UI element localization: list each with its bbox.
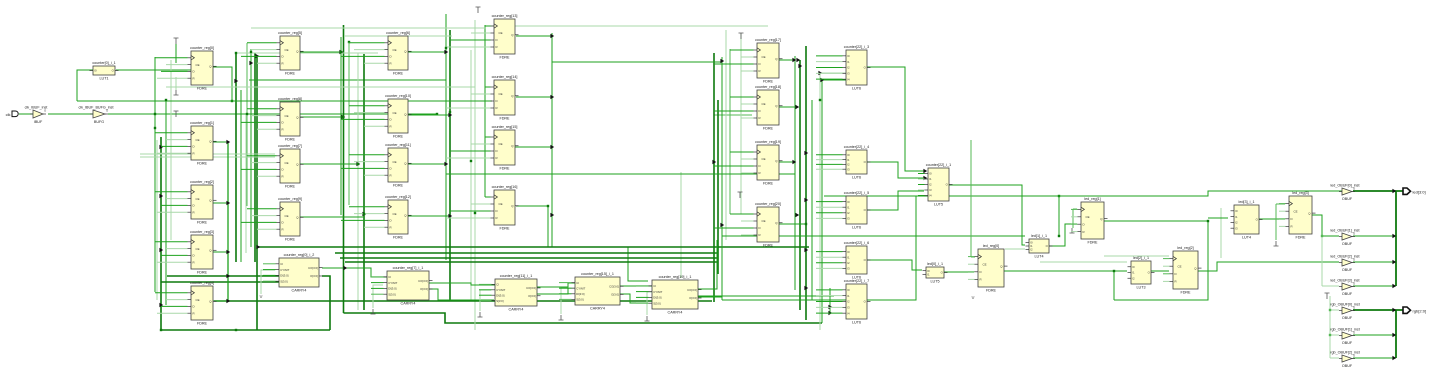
wire xyxy=(816,295,843,297)
wire xyxy=(256,56,258,330)
svg-text:D: D xyxy=(282,221,284,225)
LUT counter[22]_i_6 (LUT6) xyxy=(843,241,871,279)
svg-text:R: R xyxy=(193,311,195,315)
wire xyxy=(970,140,972,257)
junction arrow xyxy=(448,214,452,218)
wire xyxy=(357,53,359,310)
svg-text:led_OBUF[2]_inst: led_OBUF[2]_inst xyxy=(1330,255,1359,259)
wire xyxy=(213,251,228,253)
junction arrow xyxy=(804,198,808,202)
junction xyxy=(165,99,167,101)
wire xyxy=(559,287,572,289)
flip-flop counter_reg[12] (FDRE) xyxy=(385,195,412,239)
svg-text:LUT4: LUT4 xyxy=(1034,254,1043,258)
wire xyxy=(246,43,248,206)
svg-text:CE: CE xyxy=(196,247,200,251)
svg-text:FDRE: FDRE xyxy=(763,243,774,247)
wire xyxy=(155,57,188,59)
svg-text:R: R xyxy=(193,151,195,155)
wire xyxy=(348,42,350,205)
wire xyxy=(354,112,385,114)
wire xyxy=(485,136,491,138)
wire xyxy=(322,276,330,330)
wire xyxy=(816,301,843,303)
wire xyxy=(1208,217,1228,219)
wire xyxy=(779,223,806,225)
svg-text:D: D xyxy=(390,219,392,223)
junction arrow xyxy=(550,95,554,99)
wire xyxy=(968,263,975,265)
wire xyxy=(1395,191,1397,286)
junction xyxy=(348,41,350,43)
flip-flop counter_reg[16] (FDRE) xyxy=(491,185,519,230)
wire xyxy=(446,157,491,159)
junction xyxy=(1058,235,1060,237)
wire xyxy=(349,206,385,208)
svg-text:CYINIT: CYINIT xyxy=(388,281,397,285)
wire xyxy=(816,212,843,214)
wire xyxy=(341,219,385,221)
svg-text:led_reg[0]: led_reg[0] xyxy=(983,244,999,248)
wire xyxy=(349,105,385,107)
svg-text:DI[3:0]: DI[3:0] xyxy=(388,287,396,291)
svg-text:'0': '0' xyxy=(971,296,975,300)
junction xyxy=(363,213,365,215)
svg-text:R: R xyxy=(496,216,498,220)
wire xyxy=(249,79,446,81)
svg-text:CI: CI xyxy=(496,283,499,287)
flip-flop led_reg[2] (FDRE) xyxy=(1170,246,1202,294)
svg-text:CARRY4: CARRY4 xyxy=(292,288,307,292)
flip-flop counter_reg[6] (FDRE) xyxy=(385,31,412,75)
wire xyxy=(485,25,491,27)
wire xyxy=(247,208,277,210)
svg-text:CE: CE xyxy=(285,48,289,52)
LUT led[3]_i_1 (LUT4) xyxy=(1231,200,1263,239)
junction xyxy=(357,163,359,165)
wire xyxy=(354,213,385,215)
wire xyxy=(263,269,276,271)
svg-text:R: R xyxy=(1083,230,1085,234)
flip-flop counter_reg[5] (FDRE) xyxy=(277,31,304,75)
svg-text:R: R xyxy=(759,116,761,120)
junction arrow xyxy=(159,194,163,198)
wire xyxy=(371,287,384,289)
junction arrow xyxy=(828,311,832,315)
svg-text:FDRE: FDRE xyxy=(197,86,208,90)
svg-text:counter_reg[10]: counter_reg[10] xyxy=(385,94,411,98)
svg-text:counter_reg[0]_i_2: counter_reg[0]_i_2 xyxy=(284,253,315,257)
wire xyxy=(816,55,843,57)
svg-text:FDRE: FDRE xyxy=(763,126,774,130)
buffer rgb_OBUF[1]_inst (OBUF) xyxy=(1330,328,1360,346)
wire xyxy=(816,78,843,80)
wire xyxy=(161,329,330,331)
wire xyxy=(1276,203,1285,205)
svg-text:D: D xyxy=(282,168,284,172)
svg-text:CE: CE xyxy=(1178,264,1182,268)
wire xyxy=(729,49,731,214)
wire xyxy=(373,285,383,308)
wire xyxy=(1330,309,1339,311)
wire xyxy=(371,293,384,295)
svg-text:FDRE: FDRE xyxy=(499,166,510,170)
wire xyxy=(1071,208,1078,210)
wire xyxy=(636,285,649,287)
wire xyxy=(247,155,277,157)
wire xyxy=(213,67,232,101)
svg-text:counter_reg[14]: counter_reg[14] xyxy=(492,75,518,79)
wire xyxy=(816,306,843,308)
junction arrow xyxy=(1392,356,1396,360)
wire xyxy=(166,139,188,141)
wire xyxy=(1163,265,1170,267)
wire xyxy=(77,100,492,102)
wire xyxy=(816,289,843,291)
wire xyxy=(479,300,492,302)
wire xyxy=(154,57,156,292)
junction arrow xyxy=(1392,260,1396,264)
svg-text:counter_reg[15]: counter_reg[15] xyxy=(492,125,518,129)
wire xyxy=(779,59,794,61)
svg-text:D: D xyxy=(759,109,761,113)
flip-flop counter_reg[11] (FDRE) xyxy=(385,143,412,187)
wire xyxy=(214,300,712,302)
wire xyxy=(445,14,447,260)
wire xyxy=(345,261,717,263)
wire xyxy=(335,252,717,254)
svg-text:DI[3:0]: DI[3:0] xyxy=(576,292,584,296)
input port clk xyxy=(6,111,19,117)
wire xyxy=(559,282,572,284)
wire xyxy=(1395,310,1397,358)
output port led[3:0] xyxy=(1403,188,1426,194)
junction xyxy=(1207,220,1209,222)
junction xyxy=(342,116,344,118)
wire xyxy=(816,267,843,269)
flip-flop counter_reg[20] (FDRE) xyxy=(754,202,783,247)
svg-text:counter_reg[8]: counter_reg[8] xyxy=(278,97,302,101)
svg-text:R: R xyxy=(759,69,761,73)
wire xyxy=(300,163,358,165)
wire xyxy=(1329,296,1331,358)
wire xyxy=(816,217,843,219)
svg-text:R: R xyxy=(282,227,284,231)
flip-flop counter_reg[8] (FDRE) xyxy=(277,97,304,141)
junction arrow xyxy=(339,50,343,54)
wire xyxy=(559,298,572,300)
svg-text:led_reg[2]: led_reg[2] xyxy=(1177,246,1193,250)
junction arrow xyxy=(1392,308,1396,312)
wire xyxy=(547,206,549,247)
wire xyxy=(717,100,719,274)
wire xyxy=(471,143,491,145)
junction xyxy=(470,160,472,162)
junction xyxy=(547,205,549,207)
wire xyxy=(341,55,385,57)
junction arrow xyxy=(255,54,259,58)
svg-text:rgb[2:0]: rgb[2:0] xyxy=(1413,308,1427,313)
junction arrow xyxy=(804,286,808,290)
svg-text:CI: CI xyxy=(388,275,391,279)
svg-text:R: R xyxy=(496,156,498,160)
svg-text:FDRE: FDRE xyxy=(197,270,208,274)
svg-text:CYINIT: CYINIT xyxy=(653,290,662,294)
flip-flop counter_reg[9] (FDRE) xyxy=(277,197,304,241)
wire xyxy=(1353,190,1403,192)
wire xyxy=(175,77,177,90)
wire xyxy=(816,206,843,208)
wire xyxy=(741,234,754,236)
buffer rgb_OBUF[0]_inst (OBUF) xyxy=(1330,303,1360,321)
wire xyxy=(166,299,188,301)
svg-text:counter_reg[7]_i_1: counter_reg[7]_i_1 xyxy=(393,266,424,270)
wire xyxy=(918,184,925,186)
wire xyxy=(537,288,571,294)
svg-text:CE: CE xyxy=(393,111,397,115)
svg-text:counter[22]_i_7: counter[22]_i_7 xyxy=(844,279,869,283)
svg-text:counter_reg[5]: counter_reg[5] xyxy=(278,31,302,35)
wire xyxy=(1353,357,1396,359)
wire xyxy=(816,168,843,170)
wire xyxy=(227,142,229,301)
wire xyxy=(254,53,256,262)
wire xyxy=(1072,209,1074,228)
svg-text:counter_reg[0]: counter_reg[0] xyxy=(190,46,214,50)
constant marker xyxy=(174,111,179,117)
svg-text:FDRE: FDRE xyxy=(1295,235,1306,239)
svg-text:LUT6: LUT6 xyxy=(852,320,861,324)
junction xyxy=(1329,334,1331,336)
svg-text:D: D xyxy=(193,70,195,74)
wire xyxy=(250,49,252,247)
svg-text:D: D xyxy=(193,305,195,309)
wire xyxy=(349,154,385,156)
wire xyxy=(160,137,162,330)
svg-text:S[3:0]: S[3:0] xyxy=(576,298,584,302)
junction arrow xyxy=(159,303,163,307)
wire xyxy=(322,268,387,277)
wire xyxy=(450,100,491,102)
wire xyxy=(552,61,721,63)
ground xyxy=(1274,241,1279,246)
svg-text:clk_IBUF_BUFG_inst: clk_IBUF_BUFG_inst xyxy=(78,106,113,110)
wire xyxy=(241,121,277,123)
constant marker xyxy=(476,7,481,13)
wire xyxy=(1279,203,1286,205)
svg-text:R: R xyxy=(193,260,195,264)
wire xyxy=(371,282,384,284)
svg-text:FDRE: FDRE xyxy=(393,183,404,187)
svg-text:CE: CE xyxy=(393,160,397,164)
svg-text:S[3:0]: S[3:0] xyxy=(496,299,504,303)
svg-text:counter_reg[13]: counter_reg[13] xyxy=(492,14,518,18)
svg-text:counter_reg[15]_i_1: counter_reg[15]_i_1 xyxy=(581,272,614,276)
svg-text:counter_reg[7]: counter_reg[7] xyxy=(278,144,302,148)
wire xyxy=(816,201,843,203)
junction arrow xyxy=(226,140,230,144)
LUT counter[22]_i_3 (LUT6) xyxy=(843,45,871,90)
junction arrow xyxy=(796,58,800,62)
svg-text:DI[3:0]: DI[3:0] xyxy=(496,293,504,297)
wire xyxy=(1279,210,1286,212)
LUT counter[22]_i_1 (LUT5) xyxy=(925,163,953,206)
wire xyxy=(820,72,846,74)
svg-text:led[3]_i_1: led[3]_i_1 xyxy=(1239,200,1255,204)
ground xyxy=(174,90,179,95)
svg-text:LUT3: LUT3 xyxy=(1136,285,1145,289)
wire xyxy=(968,278,975,280)
svg-text:R: R xyxy=(193,210,195,214)
LUT led[0]_i_1 (LUT5) xyxy=(923,262,948,283)
wire xyxy=(157,77,188,79)
svg-text:counter[22]_i_5: counter[22]_i_5 xyxy=(844,191,869,195)
wire xyxy=(537,283,575,287)
svg-text:DI[3:0]: DI[3:0] xyxy=(280,274,288,278)
wire xyxy=(257,128,277,130)
wire xyxy=(816,72,843,74)
wire xyxy=(968,271,975,273)
svg-text:CE: CE xyxy=(393,48,397,52)
wire xyxy=(166,248,188,250)
wire xyxy=(19,113,33,115)
wire xyxy=(371,276,384,278)
wire xyxy=(354,161,385,163)
wire xyxy=(714,227,754,229)
wire xyxy=(714,165,754,167)
wire xyxy=(698,236,722,297)
svg-text:R: R xyxy=(390,124,392,128)
wire xyxy=(166,198,188,200)
junction xyxy=(1058,195,1060,197)
junction arrow xyxy=(795,213,799,217)
svg-text:LUT1: LUT1 xyxy=(99,76,108,80)
wire xyxy=(730,96,754,98)
junction xyxy=(445,47,447,49)
wire xyxy=(155,292,188,294)
junction arrow xyxy=(820,78,824,82)
junction arrow xyxy=(818,71,822,75)
svg-text:IBUF: IBUF xyxy=(34,120,43,124)
wire xyxy=(241,168,277,170)
wire xyxy=(516,35,552,37)
wire xyxy=(251,215,277,217)
wire xyxy=(1163,258,1170,260)
wire xyxy=(779,106,797,108)
wire xyxy=(867,67,924,171)
svg-text:led_OBUF[1]_inst: led_OBUF[1]_inst xyxy=(1330,229,1359,233)
wire xyxy=(161,204,188,206)
wire xyxy=(636,296,649,298)
wire xyxy=(944,271,974,273)
wire xyxy=(867,162,924,178)
wire xyxy=(1040,261,1127,263)
junction arrow xyxy=(712,160,716,164)
svg-text:CE: CE xyxy=(393,212,397,216)
flip-flop counter_reg[10] (FDRE) xyxy=(385,94,412,138)
wire xyxy=(730,213,754,215)
svg-text:counter_reg[2]: counter_reg[2] xyxy=(190,180,214,184)
wire xyxy=(805,46,807,320)
svg-text:CE: CE xyxy=(499,31,503,35)
svg-text:CE: CE xyxy=(196,197,200,201)
junction xyxy=(1113,270,1115,272)
wire xyxy=(816,251,843,253)
svg-text:D: D xyxy=(759,164,761,168)
wire xyxy=(1330,357,1339,359)
svg-text:R: R xyxy=(496,45,498,49)
wire xyxy=(1279,225,1286,227)
svg-text:CARRY4: CARRY4 xyxy=(401,301,416,305)
wire xyxy=(821,80,823,323)
wire xyxy=(741,56,754,58)
wire xyxy=(167,275,279,277)
svg-text:FDRE: FDRE xyxy=(197,321,208,325)
svg-text:CE: CE xyxy=(762,55,766,59)
svg-text:D: D xyxy=(193,254,195,258)
carry block counter_reg[11]_i_1 (CARRY4) xyxy=(492,274,541,311)
svg-text:LUT5: LUT5 xyxy=(934,202,943,206)
flip-flop counter_reg[0] (FDRE) xyxy=(188,46,217,90)
wire xyxy=(714,110,754,112)
wire xyxy=(240,90,242,262)
svg-text:CE: CE xyxy=(1086,215,1090,219)
junction arrow xyxy=(444,162,448,166)
wire xyxy=(484,25,486,197)
wire xyxy=(1104,221,1208,300)
flip-flop led_reg[0] (FDRE) xyxy=(975,244,1008,292)
buffer led_OBUF[3]_inst (OBUF) xyxy=(1330,279,1359,297)
svg-text:FDRE: FDRE xyxy=(499,116,510,120)
svg-text:D: D xyxy=(1083,222,1085,226)
wire xyxy=(408,114,450,116)
svg-text:FDRE: FDRE xyxy=(763,79,774,83)
wire xyxy=(713,53,715,302)
svg-text:counter[0]_i_1: counter[0]_i_1 xyxy=(92,61,115,65)
svg-text:R: R xyxy=(390,173,392,177)
svg-text:CO[3:0]: CO[3:0] xyxy=(609,284,619,288)
wire xyxy=(485,86,491,88)
svg-text:D: D xyxy=(496,149,498,153)
wire xyxy=(236,52,378,54)
buffer rgb_OBUF[2]_inst (OBUF) xyxy=(1330,351,1360,369)
svg-text:FDRE: FDRE xyxy=(499,55,510,59)
svg-text:LUT6: LUT6 xyxy=(852,175,861,179)
svg-text:CE: CE xyxy=(285,214,289,218)
svg-text:'0': '0' xyxy=(259,295,263,299)
svg-text:OBUF: OBUF xyxy=(1342,242,1353,246)
svg-text:D: D xyxy=(1175,272,1177,276)
svg-text:FDRE: FDRE xyxy=(1087,240,1098,244)
junction arrow xyxy=(923,176,927,180)
svg-text:FDRE: FDRE xyxy=(393,235,404,239)
svg-text:CO[3:0]: CO[3:0] xyxy=(308,266,318,270)
svg-text:D: D xyxy=(759,62,761,66)
wire xyxy=(741,70,754,72)
carry block counter_reg[7]_i_1 (CARRY4) xyxy=(384,266,433,305)
svg-text:rgb_OBUF[1]_inst: rgb_OBUF[1]_inst xyxy=(1330,328,1360,332)
wire xyxy=(620,294,648,303)
svg-text:counter_reg[18]: counter_reg[18] xyxy=(755,85,781,89)
svg-text:D: D xyxy=(980,270,982,274)
wire xyxy=(157,152,188,154)
svg-text:CO[3:0]: CO[3:0] xyxy=(526,286,536,290)
wire xyxy=(251,49,277,51)
LUT led[1]_i_1 (LUT4) xyxy=(1026,234,1053,258)
svg-text:counter[22]_i_1: counter[22]_i_1 xyxy=(926,163,951,167)
svg-text:D: D xyxy=(193,204,195,208)
wire xyxy=(1353,261,1396,263)
